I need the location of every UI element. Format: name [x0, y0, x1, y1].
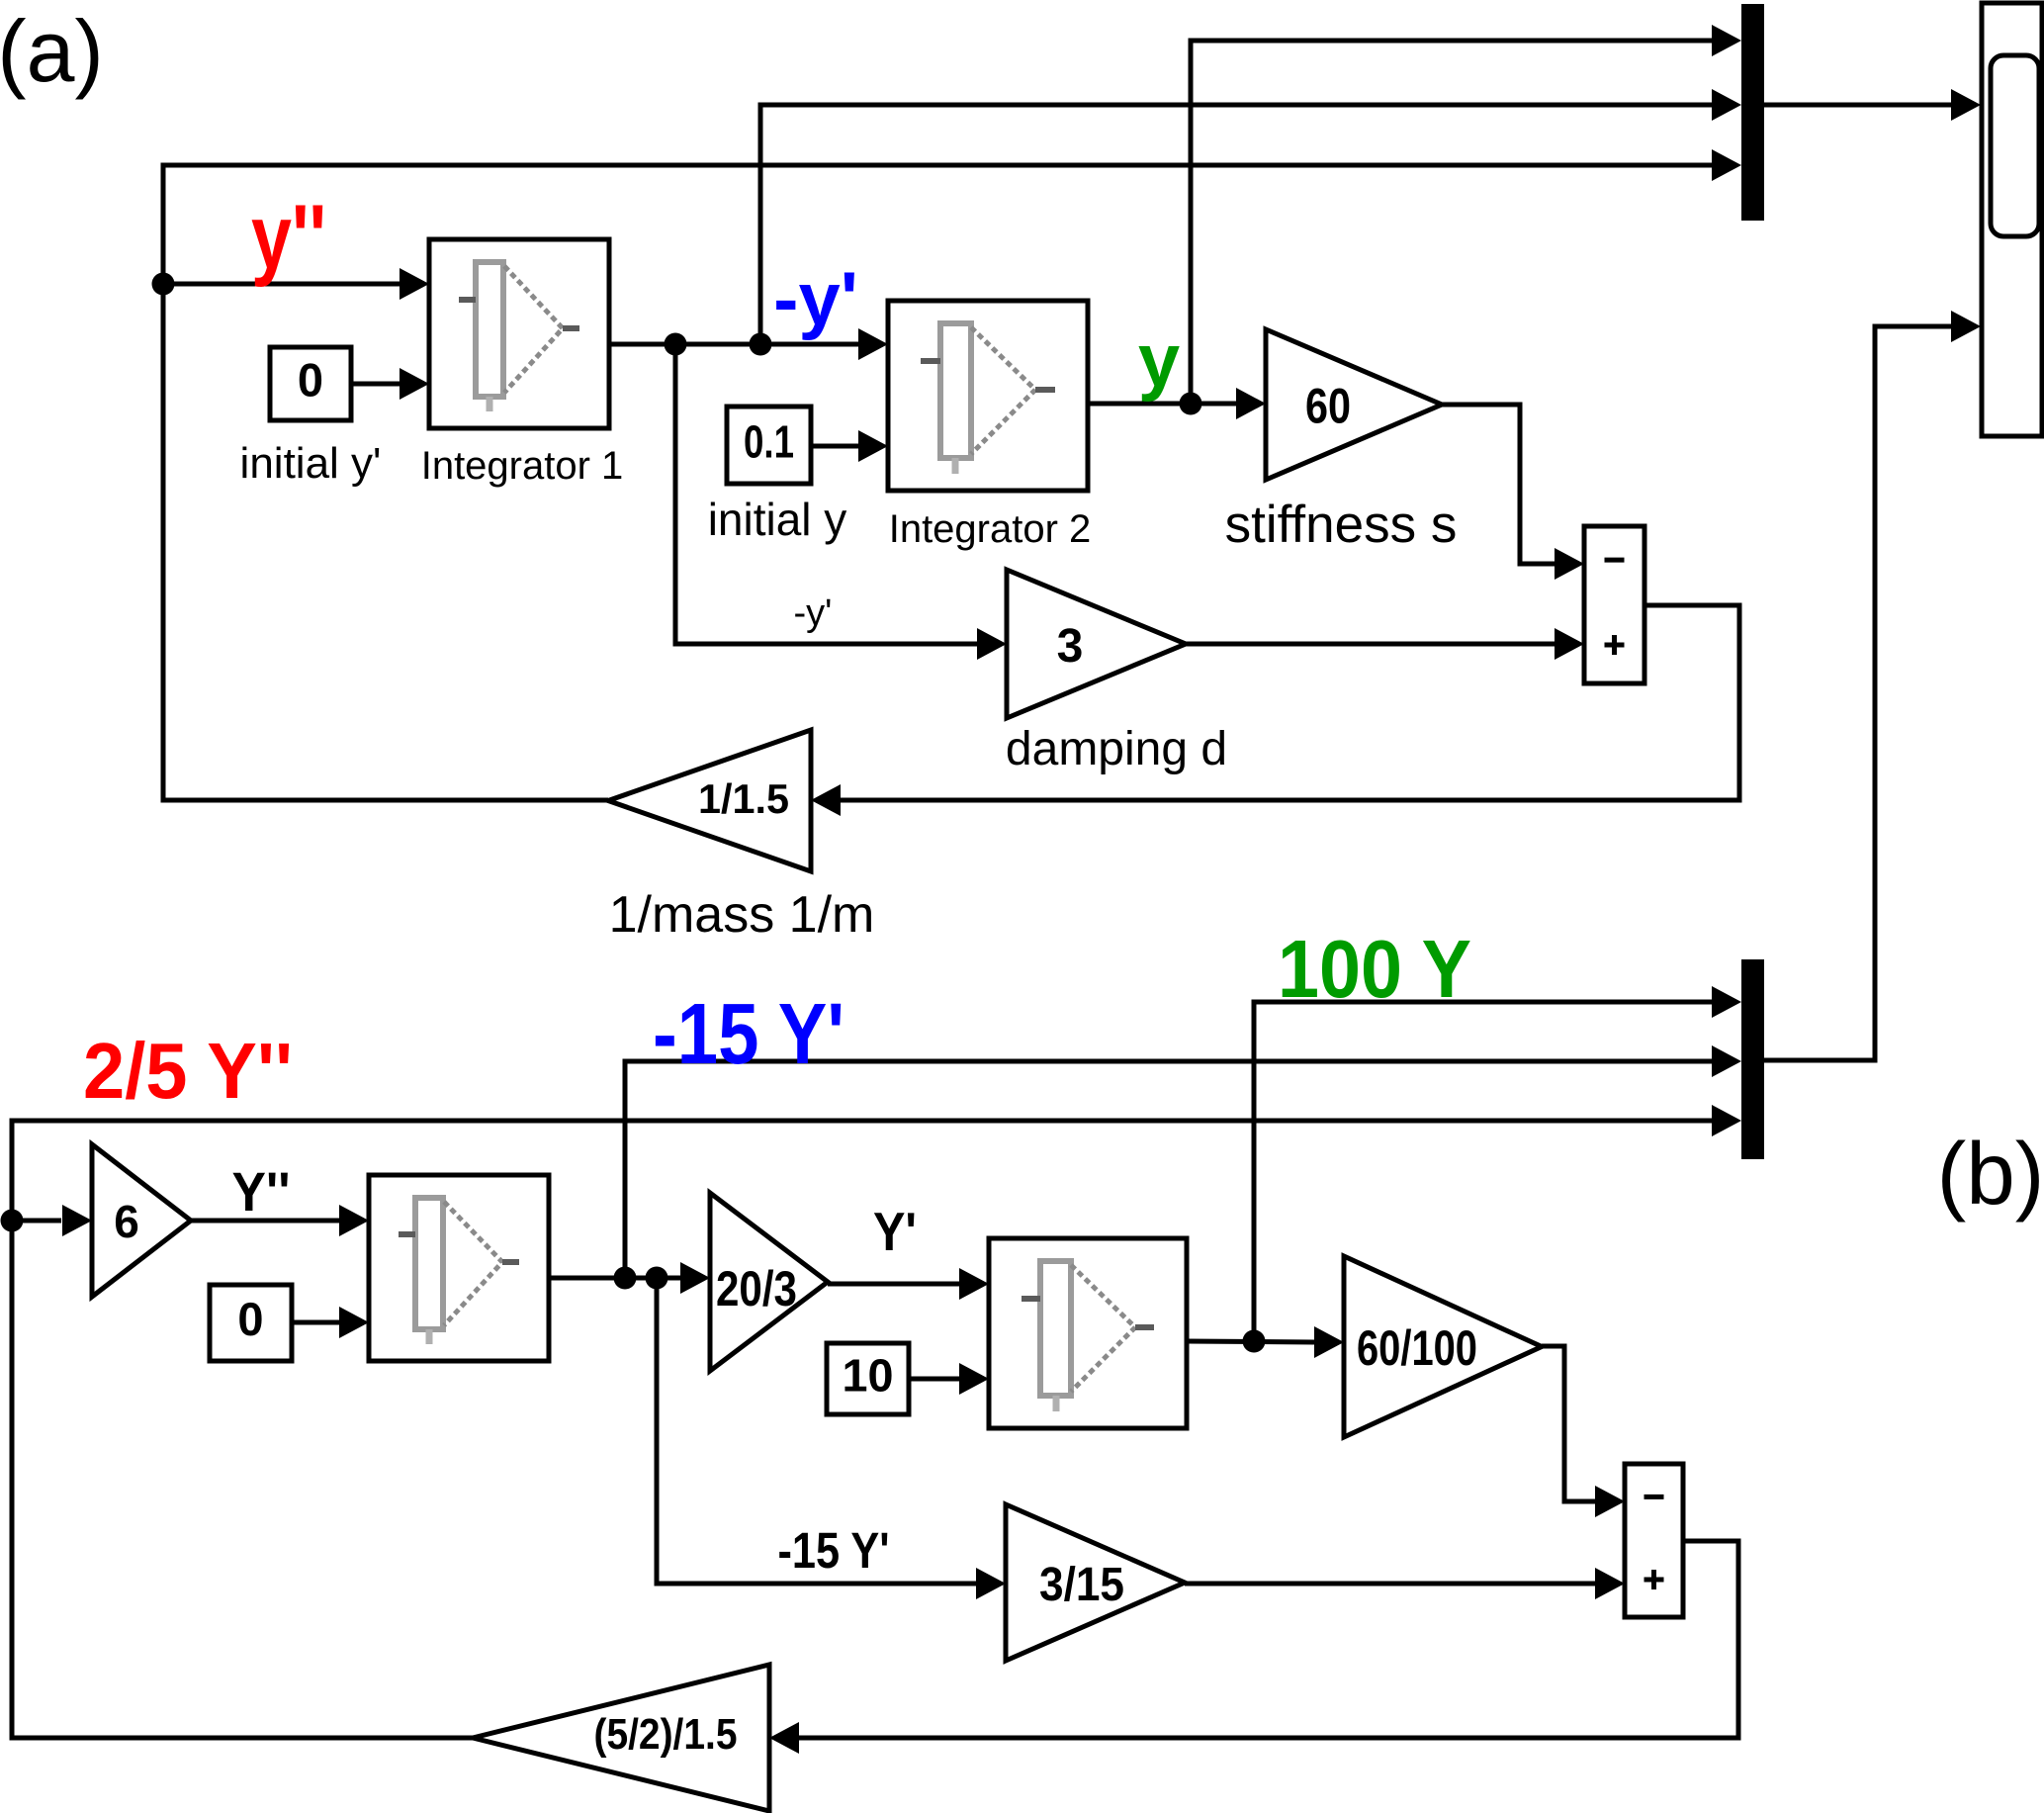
wire Y' to integrator B2 [828, 1282, 959, 1287]
svg-text:(5/2)/1.5: (5/2)/1.5 [594, 1710, 738, 1759]
svg-text:0.1: 0.1 [744, 416, 794, 468]
wire y'' left rail [163, 165, 1712, 800]
svg-text:20/3: 20/3 [716, 1261, 797, 1316]
sum block S2 [1625, 1464, 1683, 1617]
scope block [1982, 3, 2042, 436]
gain block 3 (damping d) [1007, 570, 1186, 718]
arrowhead integrator B2 IC input [959, 1363, 989, 1395]
svg-text:Integrator 1: Integrator 1 [421, 444, 624, 488]
wire 0 to integrator B1 [292, 1320, 339, 1325]
svg-text:initial y': initial y' [240, 439, 382, 488]
svg-text:3/15: 3/15 [1039, 1559, 1124, 1611]
node y'' branch [152, 273, 175, 296]
wire -y' to damping [675, 344, 977, 644]
wire -15Y' rail [625, 1061, 1712, 1278]
wire 60/100 to sum2 [1542, 1346, 1595, 1501]
gain block 20/3 [710, 1193, 828, 1371]
integrator block B1 [369, 1175, 549, 1361]
svg-text:-15 Y': -15 Y' [653, 986, 844, 1082]
svg-text:Integrator 2: Integrator 2 [889, 507, 1092, 551]
wire stiffness to sum [1442, 405, 1555, 564]
arrowhead gain 3/15 input [976, 1568, 1006, 1599]
wire -y' rail [760, 105, 1712, 344]
svg-text:0: 0 [298, 354, 323, 407]
arrowhead sum2 minus input [1595, 1486, 1625, 1517]
wire y to stiffness gain [1088, 402, 1236, 407]
svg-text:Y': Y' [873, 1201, 917, 1262]
svg-text:y: y [1138, 318, 1180, 403]
svg-text:-15 Y': -15 Y' [778, 1522, 890, 1579]
wire 10 to integrator B2 [909, 1377, 959, 1382]
node y branch [1180, 393, 1202, 415]
wire y top rail [1191, 41, 1712, 403]
constant block 0.1 (initial y) [727, 407, 811, 484]
constant block 0 (initial y') [270, 347, 351, 420]
svg-text:2/5 Y'': 2/5 Y'' [83, 1027, 293, 1115]
svg-text:-y': -y' [773, 257, 858, 341]
wire to gain 6 [12, 1219, 61, 1224]
wire y'' to Integrator 1 [163, 282, 400, 287]
arrowhead scope input 2 [1951, 311, 1981, 342]
arrowhead mux M1 input 3 [1712, 149, 1741, 181]
svg-text:3: 3 [1057, 620, 1084, 673]
gain block 60/100 [1344, 1256, 1542, 1437]
arrowhead (5/2)/1.5 input [769, 1722, 799, 1754]
wire 0 to Integrator 1 [351, 382, 400, 387]
wire integrator B1 output [549, 1276, 680, 1281]
wire 3/15 to sum2 [1185, 1582, 1595, 1586]
node 100Y branch [1243, 1330, 1266, 1353]
wire 100Y rail [1254, 1002, 1712, 1341]
arrowhead gain 20/3 input [680, 1262, 710, 1294]
integrator block B2 [989, 1238, 1187, 1428]
svg-text:stiffness s: stiffness s [1225, 496, 1458, 554]
arrowhead sum plus input [1555, 628, 1584, 660]
arrowhead integrator B2 input [959, 1268, 989, 1300]
wire integrator B2 output [1187, 1341, 1314, 1342]
gain block 6 [92, 1144, 191, 1297]
arrowhead Integrator 1 input [400, 268, 429, 300]
svg-text:Y'': Y'' [232, 1160, 291, 1223]
arrowhead gain 60/100 input [1314, 1326, 1344, 1358]
wire mux M2 to scope [1764, 326, 1951, 1060]
arrowhead mux M1 input 2 [1712, 89, 1741, 121]
gain block 3/15 [1006, 1504, 1185, 1661]
integrator block Integrator 2 [888, 301, 1088, 491]
wire gain 6 to integrator [191, 1219, 339, 1224]
svg-text:60: 60 [1305, 379, 1351, 434]
node -15Y' up branch [614, 1267, 637, 1290]
arrowhead mux M1 input 1 [1712, 25, 1741, 56]
wire 2/5Y'' left rail [12, 1121, 1712, 1738]
constant block 10 [827, 1343, 909, 1414]
wire mux M1 to scope [1764, 103, 1951, 108]
arrowhead Integrator 2 input [858, 328, 888, 360]
wire -15Y' to gain 3/15 [657, 1278, 976, 1584]
mux M2 [1741, 959, 1764, 1159]
arrowhead integrator B1 input [339, 1205, 369, 1236]
wire sum to 1/mass [841, 605, 1739, 800]
arrowhead sum minus input [1555, 548, 1584, 580]
wire 0.1 to Integrator 2 [811, 444, 858, 449]
svg-text:60/100: 60/100 [1357, 1320, 1477, 1376]
svg-text:-y': -y' [794, 592, 833, 634]
gain block 1/1.5 (1/mass) [608, 730, 811, 871]
gain block (5/2)/1.5 [473, 1665, 769, 1811]
svg-text:1/mass 1/m: 1/mass 1/m [609, 886, 875, 944]
arrowhead damping input [977, 628, 1007, 660]
svg-text:6: 6 [114, 1196, 139, 1247]
svg-text:damping d: damping d [1006, 723, 1227, 775]
arrowhead gain 6 input [62, 1205, 92, 1236]
svg-text:(a): (a) [0, 2, 104, 100]
svg-text:initial y: initial y [708, 494, 847, 545]
node -y' branch up [750, 333, 772, 356]
svg-text:y'': y'' [251, 187, 326, 288]
svg-text:0: 0 [237, 1293, 263, 1345]
arrowhead scope input 1 [1951, 89, 1981, 121]
arrowhead sum2 plus input [1595, 1568, 1625, 1599]
wire Integrator 1 output [609, 342, 858, 347]
svg-text:(b): (b) [1937, 1124, 2044, 1223]
arrowhead Integrator 2 IC input [858, 430, 888, 462]
svg-text:10: 10 [843, 1350, 894, 1402]
node -y' branch down [665, 333, 687, 356]
wire sum2 to (5/2)/1.5 [799, 1541, 1738, 1738]
wire damping to sum [1186, 642, 1555, 647]
integrator block Integrator 1 [429, 239, 609, 428]
arrowhead integrator B1 IC input [339, 1307, 369, 1338]
node feedback branch [1, 1210, 24, 1232]
node -15Y' down branch [646, 1267, 668, 1290]
svg-text:1/1.5: 1/1.5 [698, 775, 789, 822]
gain block 60 (stiffness s) [1266, 329, 1442, 480]
mux M1 [1741, 4, 1764, 221]
arrowhead mux M2 input 3 [1712, 1105, 1741, 1136]
arrowhead 1/mass input [811, 784, 841, 816]
arrowhead mux M2 input 2 [1712, 1045, 1741, 1077]
svg-text:100 Y: 100 Y [1278, 923, 1471, 1015]
arrowhead Integrator 1 IC input [400, 368, 429, 400]
arrowhead stiffness input [1236, 388, 1266, 419]
constant block 0 (b) [210, 1285, 292, 1361]
arrowhead mux M2 input 1 [1712, 986, 1741, 1018]
sum block S1 [1584, 526, 1644, 683]
